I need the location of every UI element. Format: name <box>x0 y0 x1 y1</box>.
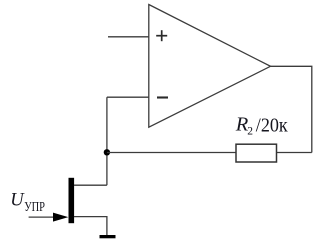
svg-text:УПР: УПР <box>24 199 45 214</box>
op-amp U1 <box>149 5 271 128</box>
wire inverting input down to drain <box>106 97 108 185</box>
wire output <box>271 66 312 152</box>
svg-text:2: 2 <box>247 126 253 138</box>
node A junction dot <box>104 149 110 155</box>
svg-text:U: U <box>10 191 25 211</box>
transistor VT1 gate bar <box>69 178 75 223</box>
wire noninverting input <box>108 36 149 38</box>
wire inverting input <box>107 96 149 98</box>
wire drain <box>74 184 107 186</box>
ground <box>100 235 116 238</box>
resistor R2 <box>236 144 277 162</box>
wire feedback horizontal <box>107 152 312 154</box>
op-amp plus marker <box>156 30 167 41</box>
wire source <box>74 217 107 236</box>
arrowhead control input <box>53 213 68 222</box>
op-amp minus marker <box>157 96 168 98</box>
svg-text:/20к: /20к <box>256 115 288 137</box>
wire control input <box>29 216 56 218</box>
